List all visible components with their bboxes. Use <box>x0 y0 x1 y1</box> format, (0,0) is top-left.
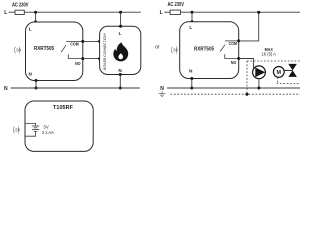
junction COM terminal (right box edge) <box>237 39 240 42</box>
junction L to RXRT505 (left) <box>34 11 37 24</box>
junction NO at boiler edge <box>98 57 101 60</box>
svg-text:BOILER CONNECTION*: BOILER CONNECTION* <box>103 33 107 70</box>
svg-text:N: N <box>4 86 8 92</box>
wire N line (left) <box>11 87 140 89</box>
junction NO terminal (left box edge) <box>81 57 84 60</box>
flame icon (boiler) <box>113 42 128 61</box>
wire L line (left) <box>24 11 141 13</box>
relay contact NO stub (right box) <box>225 54 239 58</box>
pump P1 <box>253 66 266 79</box>
wire motor dashed drop <box>277 77 279 83</box>
fuse F2 (right) <box>170 10 180 14</box>
junction boiler N to N line <box>119 73 122 90</box>
junction L to RXRT505 (right) <box>191 11 194 24</box>
svg-text:M: M <box>277 70 282 76</box>
relay contact arm (right box) <box>220 45 225 52</box>
appliance dashed frame bottom <box>277 83 301 85</box>
wire L line (right) <box>181 11 301 13</box>
wire L lead-in (right) <box>164 11 170 13</box>
junction L line feed <box>257 11 260 14</box>
earth symbol PE <box>159 91 166 97</box>
junction RXRT505 N terminal (left) <box>35 79 38 90</box>
svg-text:NO: NO <box>75 60 81 66</box>
relay contact NO stub (left box) <box>68 54 83 58</box>
wire COM to boiler <box>83 40 100 42</box>
wire L lead-in (left) <box>9 11 15 13</box>
svg-text:L: L <box>160 10 163 16</box>
svg-text:AC 230V: AC 230V <box>12 2 29 8</box>
junction NO terminal (right box edge) <box>237 57 240 60</box>
svg-text:2 x AA: 2 x AA <box>42 130 54 135</box>
svg-text:L: L <box>4 10 7 16</box>
wireless icon (left receiver) <box>14 46 21 54</box>
battery BT1 plates <box>32 126 39 131</box>
svg-text:NO: NO <box>231 60 237 66</box>
boiler box <box>100 26 141 74</box>
junction COM terminal (left box edge) <box>81 40 84 43</box>
junction RXRT505 N terminal (right) <box>190 77 193 90</box>
svg-text:L: L <box>119 31 122 36</box>
svg-text:RXRT505: RXRT505 <box>194 46 214 53</box>
flame inner drop (boiler) <box>118 53 123 59</box>
svg-text:L: L <box>189 25 192 30</box>
junction pump N <box>257 87 260 90</box>
relay contact COM stub (right box) <box>225 40 239 42</box>
svg-text:N: N <box>160 86 164 92</box>
appliance dashed frame top <box>247 60 300 62</box>
wire NO to pump <box>239 59 254 70</box>
thermostat receiver U1 RXRT505 (left box) <box>26 22 83 81</box>
junction PE to appliance frame <box>246 93 249 96</box>
wire NO to boiler <box>83 58 100 60</box>
svg-text:RXRT505: RXRT505 <box>34 46 54 53</box>
appliance dashed frame left <box>246 61 248 94</box>
fuse F1 (left) <box>15 10 24 14</box>
svg-text:or: or <box>155 44 160 50</box>
wireless icon (transmitter) <box>13 126 20 134</box>
junction L line to boiler <box>119 11 122 28</box>
wire N line (right) <box>167 87 300 89</box>
battery BT1 wires <box>25 123 36 136</box>
thermostat receiver U2 RXRT505 (right box) <box>180 22 239 79</box>
transmitter box T105RF <box>25 101 93 151</box>
svg-text:L: L <box>29 26 32 31</box>
valve V1 (hourglass) <box>288 64 297 77</box>
svg-text:3V: 3V <box>43 125 48 130</box>
wire PE dashed line <box>171 93 301 95</box>
svg-text:16 (5) A: 16 (5) A <box>261 52 276 57</box>
wireless icon (right receiver) <box>171 46 178 54</box>
wire COM feed from L line <box>239 12 259 41</box>
junction COM at boiler edge <box>98 40 101 43</box>
wire pump to N <box>258 79 260 88</box>
relay contact COM stub (left box) <box>66 40 83 42</box>
svg-text:T105RF: T105RF <box>53 105 74 111</box>
relay contact arm (left box) <box>61 45 66 52</box>
motor M1 <box>273 67 284 78</box>
svg-text:COM: COM <box>229 41 238 47</box>
svg-text:COM: COM <box>70 41 79 47</box>
svg-text:AC 230V: AC 230V <box>167 1 184 7</box>
wire motor to valve <box>284 69 292 71</box>
